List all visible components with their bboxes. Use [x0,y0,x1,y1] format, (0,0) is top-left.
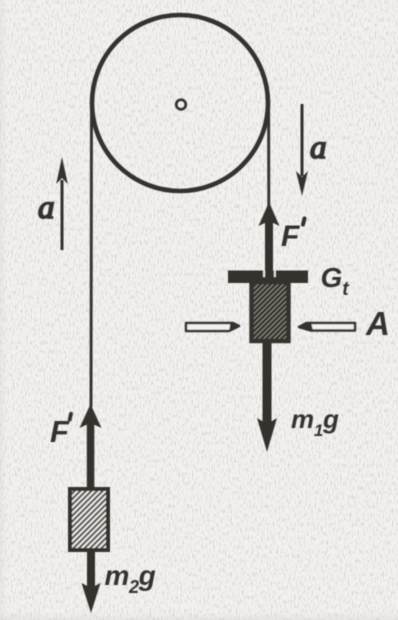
label F' (left) [50,414,71,449]
support blade right (ring A) [299,323,355,331]
svg-text:F: F [281,220,300,253]
weight arrow m2g (down) [82,550,101,613]
svg-text:a: a [38,190,55,226]
force arrow F' (left, up) [80,404,102,490]
weight arrow m1g (down) [257,341,277,452]
block m2 (hatched) [70,489,108,550]
acceleration arrow a (left, up) [56,157,68,250]
wire left string [90,103,93,407]
svg-text:A: A [365,305,390,342]
bar Gt (crossbar) [228,271,308,284]
pulley wheel [92,15,268,191]
wire right string [267,103,270,208]
svg-text:F: F [50,414,70,449]
pulley axle o [176,100,186,110]
support blade left (ring A) [186,323,239,331]
force arrow F' (right, up) [259,202,280,283]
label F' (right) [281,219,305,254]
acceleration arrow a (right, down) [296,104,308,196]
block m1 (hatched) [252,282,289,341]
svg-text:a: a [310,130,327,166]
